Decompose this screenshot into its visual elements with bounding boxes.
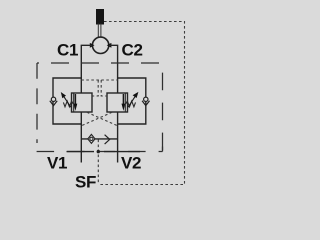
counterbalance valve left: envelope branch <box>53 78 81 124</box>
check seat arrowhead left <box>90 43 95 48</box>
valve assembly dashed boundary bottom <box>37 151 163 153</box>
pilot drop to right valve (dashed) <box>101 80 107 96</box>
check valve seat right <box>142 101 149 106</box>
svg-text:C2: C2 <box>122 41 143 60</box>
port line V1 <box>67 151 95 153</box>
check seat arrowhead right <box>107 43 112 48</box>
pilot diagonal right-to-left (dashed) <box>81 112 112 126</box>
relief valve body right <box>107 93 128 112</box>
spring left <box>63 101 73 107</box>
wire: plug stem double line <box>98 24 101 38</box>
shuttle valve line <box>81 138 117 140</box>
valve assembly boundary corner tick bottom-right <box>162 147 164 152</box>
spring right <box>126 101 136 107</box>
svg-text:V1: V1 <box>47 154 67 173</box>
shuttle ball circle <box>92 37 108 53</box>
relief valve spring plate right <box>124 93 126 112</box>
junction dot SF tap <box>97 150 100 153</box>
SF pilot drop (dashed) <box>97 140 99 185</box>
svg-text:C1: C1 <box>57 41 78 60</box>
shuttle valve open arrow <box>105 135 110 144</box>
port line V2 <box>104 151 140 153</box>
wire: C2 branch to circle <box>109 45 118 93</box>
wire: left riser lower <box>80 112 82 163</box>
shuttle valve diamond <box>88 134 95 143</box>
wire: C1 branch to circle <box>81 45 92 93</box>
adjustment arrow right <box>128 96 135 107</box>
valve assembly dashed boundary left <box>36 63 38 143</box>
valve assembly dashed boundary top <box>37 62 163 64</box>
adjustment arrow left <box>64 96 71 107</box>
pilot line from plug to SF (dashed) <box>98 22 184 185</box>
relief valve spring plate left <box>73 93 75 112</box>
pilot diagonal left-to-right (dashed) <box>87 112 118 126</box>
check valve ball left <box>51 97 55 101</box>
shuttle valve ball <box>90 137 93 140</box>
counterbalance valve right: envelope branch <box>118 78 146 124</box>
svg-text:V2: V2 <box>121 154 141 173</box>
relief valve flow arrow left <box>74 94 76 105</box>
valve assembly dashed boundary right <box>162 63 164 152</box>
check valve ball right <box>144 97 148 101</box>
wire: right riser lower <box>117 112 119 163</box>
pilot drop to left valve (dashed) <box>92 80 98 96</box>
relief valve flow arrow right <box>122 94 124 105</box>
pilot line cross link (dashed) <box>81 79 117 81</box>
svg-text:SF: SF <box>75 172 96 191</box>
relief valve body left <box>72 93 93 112</box>
plug (blanked top port) <box>96 9 104 25</box>
check valve seat left <box>50 101 57 106</box>
